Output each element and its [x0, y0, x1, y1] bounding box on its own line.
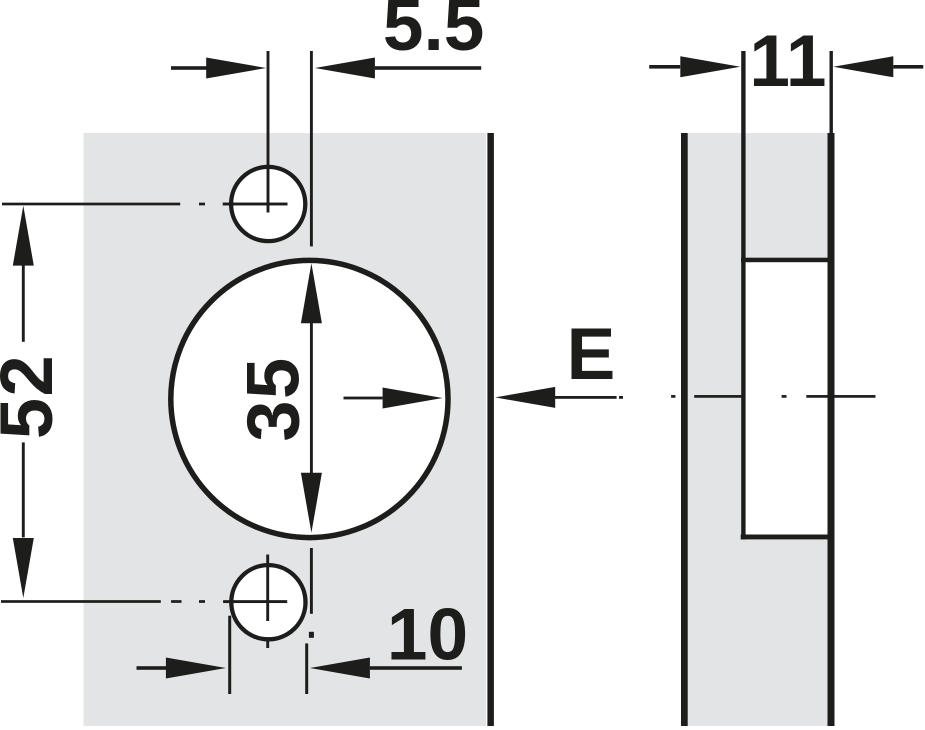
svg-text:11: 11: [749, 21, 826, 102]
svg-text:35: 35: [232, 356, 315, 441]
svg-text:52: 52: [0, 354, 68, 439]
svg-text:10: 10: [387, 595, 468, 676]
svg-text:5.5: 5.5: [383, 0, 484, 66]
svg-text:E: E: [567, 314, 616, 395]
